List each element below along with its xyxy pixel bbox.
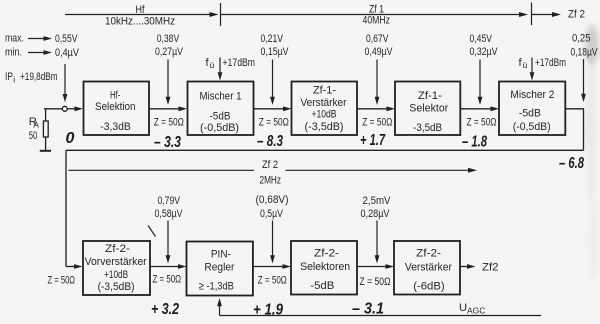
label 10kHz....30MHz bbox=[105, 16, 175, 28]
svg-text:Zf2: Zf2 bbox=[482, 261, 499, 273]
svg-text:+19,8dBm: +19,8dBm bbox=[20, 71, 58, 83]
resistor RA body bbox=[43, 121, 48, 137]
block Mischer 2 bbox=[499, 82, 565, 136]
wire Vorverstaerker to PIN-Regler bbox=[150, 264, 187, 269]
wire UAGC up into PIN-Regler bbox=[217, 298, 222, 316]
svg-text:0,27µV: 0,27µV bbox=[155, 46, 183, 58]
arrow min bbox=[28, 50, 52, 55]
arrow measurement 1 bbox=[166, 60, 171, 106]
value label 0,28uV bbox=[361, 208, 390, 220]
label Z=50 Ohm 2 bbox=[259, 116, 289, 128]
svg-text:0: 0 bbox=[66, 130, 75, 147]
svg-text:(-3,5dB): (-3,5dB) bbox=[305, 121, 344, 133]
arrow input down bbox=[63, 64, 68, 102]
net Zf2 header arrow bbox=[532, 12, 562, 17]
svg-text:+ 1.7: + 1.7 bbox=[360, 132, 386, 149]
svg-text:0,15µV: 0,15µV bbox=[261, 46, 289, 58]
svg-text:Zf-2-: Zf-2- bbox=[416, 247, 441, 259]
svg-text:0,45V: 0,45V bbox=[470, 33, 493, 45]
label UAGC bbox=[459, 302, 485, 316]
value label 0,79V bbox=[158, 195, 181, 207]
wire Zf2 output bbox=[460, 264, 476, 269]
wire Mischer 2 output down bbox=[583, 109, 585, 151]
svg-text:max.: max. bbox=[5, 32, 24, 44]
svg-text:U: U bbox=[459, 302, 467, 314]
svg-text:0,21V: 0,21V bbox=[261, 33, 284, 45]
value label 0,15uV bbox=[261, 46, 289, 58]
svg-text:+10dB: +10dB bbox=[312, 108, 337, 120]
label 2MHz bbox=[260, 174, 282, 186]
svg-text:(0,68V): (0,68V) bbox=[256, 194, 289, 206]
wire Mischer 2 output bbox=[565, 108, 584, 110]
svg-text:0,58µV: 0,58µV bbox=[155, 208, 183, 220]
value label 0,58uV bbox=[155, 208, 183, 220]
svg-text:Z = 50Ω: Z = 50Ω bbox=[258, 275, 287, 287]
svg-text:+10dB: +10dB bbox=[104, 269, 128, 281]
node frequency boundary tick 2 bbox=[531, 3, 533, 26]
arrow max bbox=[28, 36, 52, 41]
svg-text:Z = 50Ω: Z = 50Ω bbox=[153, 274, 182, 286]
handwritten +3.2 bbox=[151, 301, 179, 318]
svg-text:Z = 50Ω: Z = 50Ω bbox=[259, 116, 289, 128]
value label 0,18uV clipped at edge bbox=[571, 47, 598, 59]
handwritten -6.8 bbox=[559, 155, 584, 172]
ground bbox=[40, 150, 51, 152]
label Z=50 Ohm 1 bbox=[154, 116, 184, 128]
svg-text:0,79V: 0,79V bbox=[158, 195, 181, 207]
svg-text:0,55V: 0,55V bbox=[55, 33, 78, 45]
value label 0,67V bbox=[366, 33, 389, 45]
wire Zf2 route down left bbox=[65, 150, 67, 266]
svg-text:0,49µV: 0,49µV bbox=[365, 46, 393, 58]
value label 0,21V bbox=[261, 33, 284, 45]
label Z=50 Ohm 7 bbox=[258, 275, 287, 287]
net Zf2 range line right segment with arrow bbox=[286, 168, 478, 173]
svg-text:Selektor: Selektor bbox=[409, 103, 448, 115]
svg-text:0,67V: 0,67V bbox=[366, 33, 389, 45]
svg-text:40MHz: 40MHz bbox=[363, 15, 391, 27]
handwritten -8.3 bbox=[257, 133, 283, 150]
arrow measurement 6 bbox=[166, 221, 171, 264]
arrow measurement 8 bbox=[375, 221, 380, 264]
net Zf1 header line bbox=[221, 12, 529, 17]
wire Zf2 route horizontal bbox=[66, 149, 584, 151]
svg-text:Z = 50Ω: Z = 50Ω bbox=[360, 276, 391, 288]
label Z=50 Ohm 3 bbox=[362, 116, 392, 128]
handwritten -1.8 bbox=[462, 134, 487, 151]
arrow measurement 7 bbox=[270, 221, 275, 264]
block Zf-1-Selektor bbox=[395, 82, 460, 136]
svg-text:(-0,5dB): (-0,5dB) bbox=[200, 122, 239, 134]
resistor RA lower lead bbox=[45, 137, 47, 150]
label min. bbox=[5, 46, 22, 58]
svg-text:Hf: Hf bbox=[136, 4, 146, 16]
svg-text:Z = 50Ω: Z = 50Ω bbox=[362, 116, 392, 128]
svg-text:Verstärker: Verstärker bbox=[405, 261, 452, 273]
svg-text:Z = 50Ω: Z = 50Ω bbox=[154, 116, 184, 128]
svg-text:Z = 50Ω: Z = 50Ω bbox=[467, 116, 497, 128]
svg-text:-5dB: -5dB bbox=[310, 280, 334, 292]
value label 0,5uV bbox=[260, 208, 283, 220]
node frequency boundary tick 1 bbox=[220, 3, 222, 26]
svg-text:+17dBm: +17dBm bbox=[223, 57, 256, 69]
value label (0,68V) bbox=[256, 194, 289, 206]
svg-text:0,25: 0,25 bbox=[572, 33, 591, 45]
label fu 2 bbox=[519, 57, 528, 70]
svg-text:-5dB: -5dB bbox=[519, 108, 541, 120]
wire node to Hf-Selektion bbox=[68, 106, 83, 111]
svg-text:– 6.8: – 6.8 bbox=[559, 155, 584, 172]
value label +17dBm 2 bbox=[535, 57, 566, 69]
svg-text:Z = 50Ω: Z = 50Ω bbox=[48, 275, 76, 287]
svg-text:0,32µV: 0,32µV bbox=[470, 46, 498, 58]
value label 0,25 bbox=[572, 33, 591, 45]
svg-text:2MHz: 2MHz bbox=[260, 174, 282, 186]
label Z=50 Ohm 6 bbox=[153, 274, 182, 286]
value label 2,5mV bbox=[363, 195, 391, 207]
wire UAGC horizontal bbox=[220, 315, 542, 317]
wire Mischer 1 to Zf-1-Verstaerker bbox=[254, 106, 292, 111]
handwritten -3.3 bbox=[154, 134, 181, 151]
scan smudge right edge bbox=[585, 25, 599, 280]
svg-text:10kHz....30MHz: 10kHz....30MHz bbox=[105, 16, 175, 28]
block Zf-2-Verstaerker bbox=[394, 241, 460, 295]
svg-text:(-6dB): (-6dB) bbox=[413, 280, 445, 292]
svg-text:A: A bbox=[33, 120, 39, 130]
wire PIN-Regler to Zf-2-Selektoren bbox=[253, 264, 291, 269]
svg-text:-5dB: -5dB bbox=[210, 110, 231, 122]
svg-text:– 3.3: – 3.3 bbox=[154, 134, 181, 151]
value label 0,38V bbox=[157, 33, 180, 45]
wire Zf-1-Selektor to Mischer 2 bbox=[460, 106, 499, 111]
svg-text:Zf-1-: Zf-1- bbox=[313, 85, 336, 97]
svg-text:≥ -1,3dB: ≥ -1,3dB bbox=[199, 281, 234, 293]
label Z=50 Ohm 4 bbox=[467, 116, 497, 128]
label Zf 2 bbox=[262, 159, 278, 171]
svg-text:0,4µV: 0,4µV bbox=[55, 47, 79, 59]
svg-text:0,18µV: 0,18µV bbox=[571, 47, 598, 59]
svg-text:0,5µV: 0,5µV bbox=[260, 208, 283, 220]
label Z=50 Ohm 5 bbox=[48, 275, 76, 287]
svg-text:Zf-2-: Zf-2- bbox=[314, 248, 339, 260]
wire Zf-1-Verstaerker to Zf-1-Selektor bbox=[357, 106, 395, 111]
svg-text:PIN-: PIN- bbox=[211, 248, 231, 260]
net Hf header line bbox=[65, 12, 219, 17]
label Zf 2 top right bbox=[568, 9, 585, 21]
svg-text:Regler: Regler bbox=[204, 261, 234, 273]
svg-text:0,28µV: 0,28µV bbox=[361, 208, 390, 220]
label Zf 1 bbox=[369, 4, 384, 16]
value label 0,55V bbox=[55, 33, 78, 45]
block Mischer 1 bbox=[188, 82, 254, 136]
wire antenna to node bbox=[44, 108, 62, 110]
value label 0,27uV bbox=[155, 46, 183, 58]
node input junction circle bbox=[62, 106, 67, 111]
arrow measurement 4 bbox=[478, 60, 483, 106]
svg-text:ü: ü bbox=[523, 60, 528, 70]
block Hf-Selektion bbox=[84, 82, 150, 136]
svg-text:Zf 2: Zf 2 bbox=[568, 9, 585, 21]
arrow LO into Mischer 1 bbox=[218, 58, 223, 81]
svg-text:(-3,5dB): (-3,5dB) bbox=[98, 281, 135, 293]
block Zf-1-Verstaerker bbox=[292, 82, 358, 136]
svg-text:IP: IP bbox=[5, 71, 13, 83]
svg-text:i: i bbox=[13, 75, 15, 85]
value label 0,4uV bbox=[55, 47, 79, 59]
arrow measurement 5 bbox=[581, 59, 586, 102]
svg-text:(-0,5dB): (-0,5dB) bbox=[513, 121, 551, 133]
value label +17dBm 1 bbox=[223, 57, 256, 69]
handwritten -3.1 bbox=[352, 301, 384, 318]
handwritten +1.9 bbox=[253, 302, 283, 319]
svg-text:Vorverstärker: Vorverstärker bbox=[85, 256, 147, 268]
value label 0,32uV bbox=[470, 46, 498, 58]
svg-text:Zf 2: Zf 2 bbox=[262, 159, 278, 171]
svg-text:Selektion: Selektion bbox=[95, 101, 136, 113]
svg-text:Hf-: Hf- bbox=[110, 89, 121, 101]
svg-text:Mischer 2: Mischer 2 bbox=[510, 89, 554, 101]
svg-text:-3,3dB: -3,3dB bbox=[100, 121, 131, 133]
value label 0,49uV bbox=[365, 46, 393, 58]
svg-text:Mischer 1: Mischer 1 bbox=[200, 90, 242, 102]
label fu 1 bbox=[206, 57, 215, 70]
svg-text:ü: ü bbox=[210, 60, 215, 70]
svg-text:-3,5dB: -3,5dB bbox=[413, 122, 442, 134]
svg-text:Zf-1-: Zf-1- bbox=[418, 90, 442, 102]
wire Hf-Selektion to Mischer 1 bbox=[149, 106, 187, 111]
wire into Zf-2-Vorverstaerker bbox=[66, 264, 83, 269]
handwritten 0 bbox=[66, 130, 75, 147]
net Zf2 range line left segment bbox=[69, 169, 255, 171]
svg-text:min.: min. bbox=[5, 46, 22, 58]
svg-text:+17dBm: +17dBm bbox=[535, 57, 566, 69]
handwritten +1.7 bbox=[360, 132, 386, 149]
label Hf bbox=[136, 4, 146, 16]
label Zf2 output bbox=[482, 261, 499, 273]
value label 0,45V bbox=[470, 33, 493, 45]
label IPi +19,8dBm bbox=[5, 71, 58, 85]
block Zf-2-Selektoren bbox=[291, 241, 357, 295]
svg-text:2,5mV: 2,5mV bbox=[363, 195, 391, 207]
label 40MHz bbox=[363, 15, 391, 27]
svg-text:– 1.8: – 1.8 bbox=[462, 134, 487, 151]
svg-text:+ 3.2: + 3.2 bbox=[151, 301, 179, 318]
label RA bbox=[29, 116, 39, 130]
block Zf-2-Vorverstaerker bbox=[83, 241, 150, 295]
label Z=50 Ohm 8 bbox=[360, 276, 391, 288]
svg-text:Verstärker: Verstärker bbox=[301, 97, 347, 109]
svg-text:AGC: AGC bbox=[467, 305, 485, 315]
label 50 bbox=[29, 130, 38, 142]
svg-text:– 8.3: – 8.3 bbox=[257, 133, 283, 150]
label max. bbox=[5, 32, 24, 44]
wire Selektoren to Zf-2-Verstaerker bbox=[357, 264, 394, 269]
svg-text:Zf-2-: Zf-2- bbox=[105, 243, 130, 255]
svg-text:Selektoren: Selektoren bbox=[300, 261, 350, 273]
arrow measurement 3 bbox=[375, 60, 380, 106]
arrow measurement 2 bbox=[270, 60, 275, 106]
resistor RA lead upper bbox=[45, 109, 47, 121]
handwritten stray tick bbox=[148, 226, 156, 237]
svg-text:50: 50 bbox=[29, 130, 38, 142]
block PIN-Regler bbox=[187, 242, 253, 296]
arrow LO into Mischer 2 bbox=[530, 58, 535, 81]
svg-text:0,38V: 0,38V bbox=[157, 33, 180, 45]
